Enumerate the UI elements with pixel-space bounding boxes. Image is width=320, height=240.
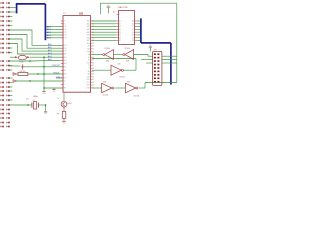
svg-text:74AC573N: 74AC573N [118,6,128,9]
svg-text:Q2: Q2 [33,100,35,102]
svg-text:T1: T1 [88,68,90,70]
svg-text:GND: GND [44,113,47,115]
svg-text:T1: T1 [64,23,66,25]
svg-text:BC547: BC547 [68,103,72,105]
svg-text:RST: RST [87,62,90,64]
svg-text:36: 36 [92,62,94,64]
svg-text:D0: D0 [119,21,121,23]
svg-text:42: 42 [92,79,94,81]
svg-text:PSE: PSE [87,51,90,53]
svg-text:JP5: JP5 [154,49,157,51]
svg-text:P10: P10 [64,26,67,28]
svg-text:31: 31 [92,48,94,50]
svg-text:D6: D6 [119,37,121,39]
svg-text:74LS04: 74LS04 [105,48,110,50]
svg-text:44: 44 [92,85,94,87]
svg-text:Q4: Q4 [132,32,134,34]
svg-text:CLKOUT: CLKOUT [52,65,61,67]
svg-text:C15: C15 [26,98,29,100]
svg-text:74LS04: 74LS04 [125,48,130,50]
svg-text:IN0: IN0 [87,71,90,73]
svg-text:Q7: Q7 [132,40,134,42]
svg-text:T1: T1 [57,98,59,100]
svg-text:40: 40 [92,74,94,76]
svg-text:XTAL1: XTAL1 [56,76,63,79]
svg-text:IC3B: IC3B [126,61,129,63]
svg-text:Q5: Q5 [132,35,134,37]
svg-text:R9: R9 [57,113,59,115]
svg-text:IC1: IC1 [63,13,66,15]
svg-text:P12: P12 [64,32,67,34]
svg-text:Q3: Q3 [132,29,134,31]
svg-text:74 LS04: 74 LS04 [134,95,140,97]
svg-text:RXD0: RXD0 [53,72,59,74]
svg-text:37: 37 [92,65,94,67]
svg-text:GND: GND [43,93,46,95]
svg-text:35: 35 [92,60,94,62]
svg-text:GND: GND [53,91,56,93]
svg-text:74LS04: 74LS04 [120,76,125,78]
svg-text:INT: INT [64,88,67,90]
svg-text:43: 43 [92,82,94,84]
svg-text:P13: P13 [64,35,67,37]
svg-text:Q1: Q1 [132,23,134,25]
svg-text:P17: P17 [64,51,67,53]
svg-text:IC2: IC2 [113,12,116,14]
svg-text:GND: GND [63,123,66,125]
svg-text:IN1: IN1 [87,74,90,76]
svg-text:R11 2k2: R11 2k2 [20,71,26,73]
svg-text:38: 38 [92,68,94,70]
svg-text:D4: D4 [119,32,121,34]
svg-text:IC3F: IC3F [127,82,130,84]
svg-text:P11: P11 [64,29,67,31]
svg-text:30: 30 [92,46,94,48]
svg-text:D2: D2 [119,26,121,28]
svg-text:X2: X2 [88,60,90,62]
svg-text:Q6: Q6 [132,37,134,39]
svg-text:T0: T0 [88,65,90,67]
svg-text:Q0: Q0 [132,21,134,23]
svg-text:X1: X1 [64,84,66,86]
svg-text:D5: D5 [119,35,121,37]
svg-text:41: 41 [92,76,94,78]
svg-text:I/O: I/O [79,12,84,16]
svg-text:39: 39 [92,71,94,73]
svg-text:GND: GND [107,5,110,7]
svg-text:P16: P16 [64,48,67,50]
svg-text:74 LS04: 74 LS04 [103,94,109,96]
svg-text:VSS: VSS [87,88,90,90]
svg-text:X2: X2 [64,81,66,83]
svg-text:D7: D7 [119,40,121,42]
svg-text:29: 29 [92,43,94,45]
svg-text:IC3C: IC3C [118,64,121,66]
svg-text:16MHz: 16MHz [33,96,38,98]
svg-text:GND: GND [149,45,152,47]
svg-text:32: 32 [92,51,94,53]
svg-text:RST: RST [64,78,67,80]
svg-text:D3: D3 [119,29,121,31]
svg-text:Q2: Q2 [132,26,134,28]
svg-text:P15: P15 [64,45,67,47]
svg-text:T0: T0 [64,21,66,23]
svg-text:X1: X1 [88,57,90,59]
svg-text:IC3E: IC3E [103,82,106,84]
svg-text:P14: P14 [64,37,67,39]
svg-text:D1: D1 [119,23,121,25]
